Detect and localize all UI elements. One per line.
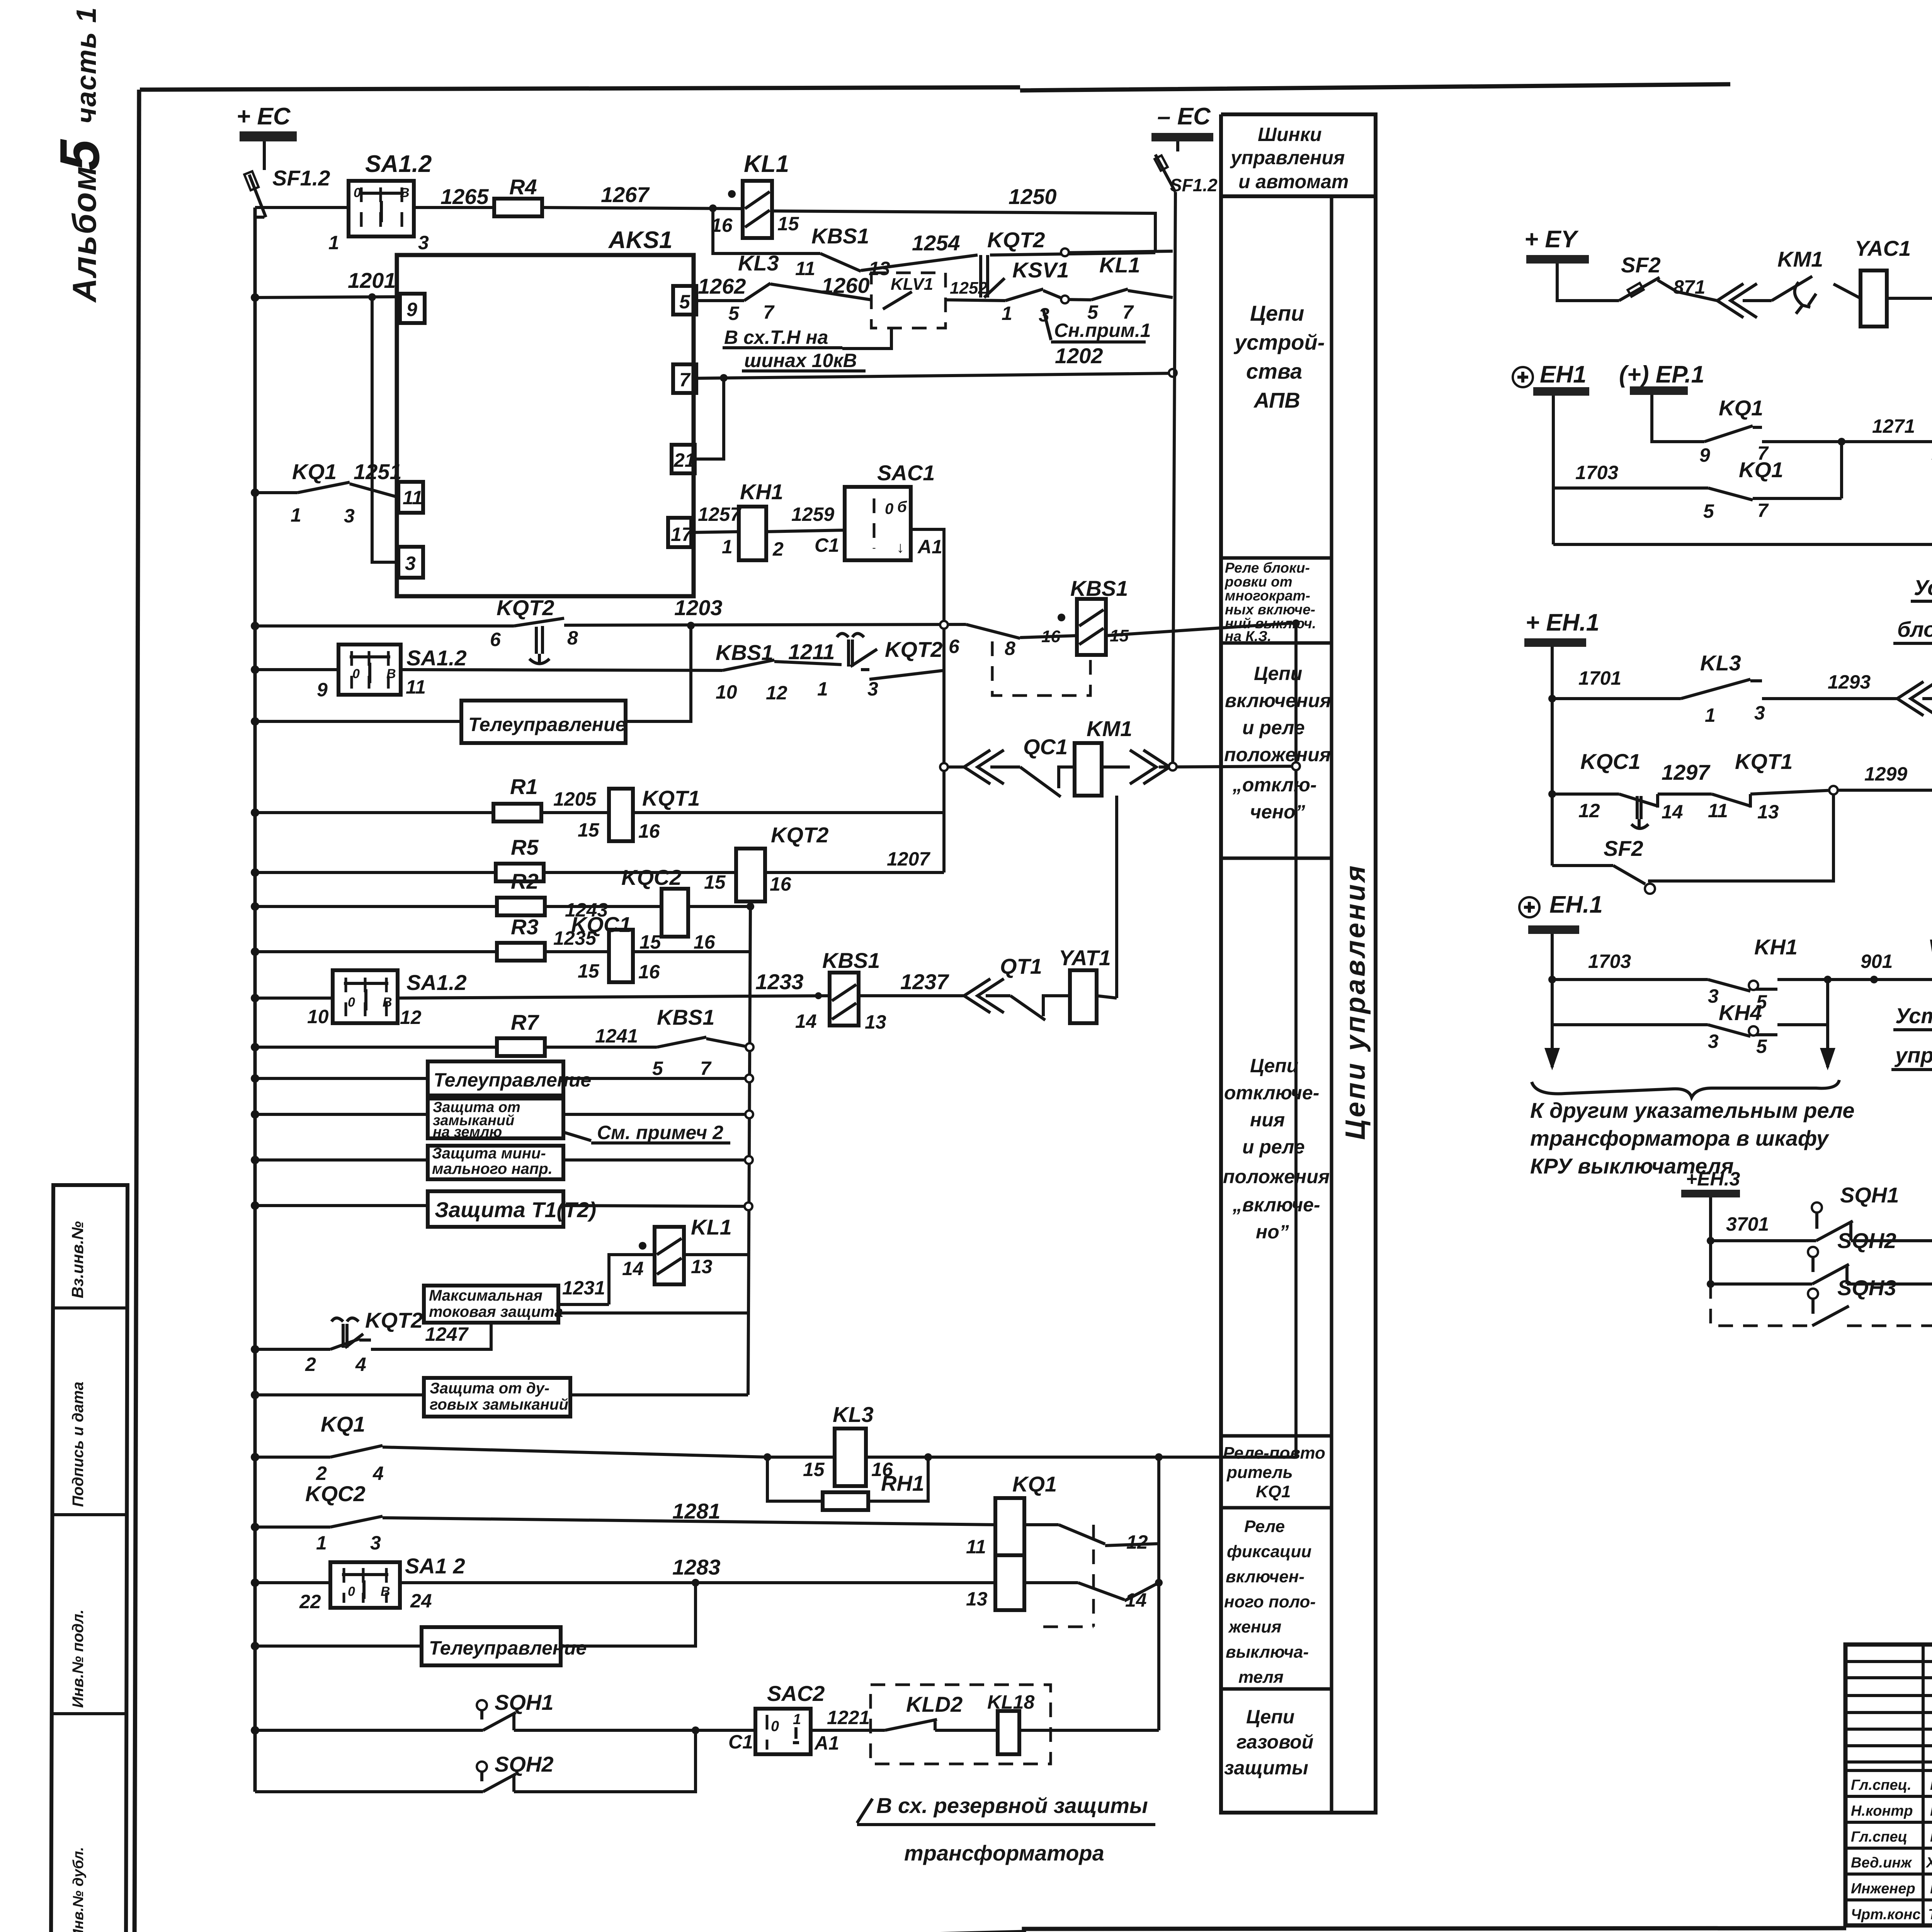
contact KQT2 6-8 (second) (949, 624, 1090, 696)
contact KQT2 2-4 (anchored) (305, 1308, 423, 1375)
svg-text:Цепи: Цепи (1250, 1055, 1298, 1077)
svg-text:24: 24 (410, 1590, 432, 1612)
svg-text:13: 13 (1757, 801, 1779, 823)
svg-text:15: 15 (803, 1459, 825, 1480)
contact KQT1 2-4 (1932, 396, 1932, 464)
bus -EC bar (1151, 103, 1213, 141)
legend box: Реле фиксации включенного положения выключателя (1221, 1517, 1332, 1689)
svg-text:14: 14 (1662, 801, 1683, 823)
svg-text:16: 16 (1041, 627, 1060, 646)
svg-text:3701: 3701 (1726, 1213, 1769, 1235)
wire row KQ1 1251 (y 1275) (255, 484, 398, 497)
wire row R1 KQT1 (y 2103) (255, 811, 944, 814)
svg-text:Цепи: Цепи (1250, 301, 1304, 325)
svg-text:12: 12 (1578, 800, 1600, 821)
svg-text:SA1.2: SA1.2 (406, 970, 467, 995)
bus +EC bar (236, 103, 297, 141)
svg-text:10: 10 (307, 1006, 329, 1027)
svg-text:KQ1: KQ1 (1719, 396, 1763, 420)
svg-text:SF2: SF2 (1604, 836, 1643, 861)
wire row SA1.2 22-24 1283 (y 4096) (255, 1583, 1159, 1601)
svg-text:Горелик: Горелик (1930, 1803, 1932, 1819)
svg-text:16: 16 (694, 931, 716, 953)
svg-text:KSV1: KSV1 (1012, 258, 1069, 282)
svg-text:KQC1: KQC1 (1580, 749, 1641, 774)
contact KQT2 1-3 (anchored) (788, 634, 942, 700)
switch SAC1 (815, 461, 942, 560)
resistor R5 (496, 835, 544, 881)
wire row KQT2 2-4 1247 (y 3492) (255, 1323, 491, 1349)
middle legend column outer box (1221, 114, 1376, 1813)
AKS1 pin 3 (398, 547, 423, 578)
note Установлено на блоке управления (1891, 1003, 1932, 1070)
svg-text:фиксации: фиксации (1227, 1542, 1311, 1561)
svg-text:11: 11 (403, 487, 423, 509)
svg-text:KQC2: KQC2 (305, 1481, 366, 1506)
svg-text:5: 5 (1703, 500, 1714, 522)
svg-text:KM1: KM1 (1087, 716, 1132, 741)
svg-text:1271: 1271 (1872, 415, 1915, 437)
svg-text:Телеуправление: Телеуправление (429, 1637, 587, 1659)
wire row 1203 (y 1618) (255, 623, 1296, 638)
svg-text:3: 3 (1708, 985, 1719, 1007)
wire EH.1 feeder (1551, 647, 1554, 866)
diode VD2 (1928, 935, 1932, 996)
svg-text:Защита мини-: Защита мини- (432, 1145, 546, 1162)
svg-text:+ ЕС: + ЕС (236, 103, 291, 130)
svg-text:7: 7 (763, 301, 775, 323)
switch SA1.2 (contacts 1-3) (328, 151, 432, 253)
svg-text:901: 901 (1861, 951, 1893, 972)
legend box: Реле-повторитель KQ1 (1221, 1444, 1332, 1508)
box Защита от дуговых замыканий (424, 1378, 570, 1417)
svg-text:Инв.№ подл.: Инв.№ подл. (70, 1609, 87, 1708)
svg-text:KL1: KL1 (691, 1215, 732, 1239)
contact KH1 3-5 (1708, 935, 1798, 1013)
brace К другим указательным реле (1532, 1080, 1839, 1097)
svg-text:1252: 1252 (950, 279, 988, 298)
node row KQ1 right (1155, 1453, 1163, 1461)
svg-text:KL1: KL1 (744, 151, 789, 177)
svg-text:1293: 1293 (1828, 671, 1871, 693)
node (2756,654) (1061, 248, 1069, 256)
left stamp column labels (68, 1221, 87, 1932)
svg-text:трансформатора в шкафу: трансформатора в шкафу (1530, 1126, 1830, 1150)
svg-text:14: 14 (795, 1010, 817, 1032)
svg-text:C1: C1 (815, 534, 839, 556)
svg-text:6: 6 (949, 636, 960, 657)
plug contact (chevrons in) (1717, 284, 1757, 318)
svg-text:871: 871 (1673, 276, 1705, 298)
svg-text:KQT2: KQT2 (987, 228, 1045, 252)
svg-text:3: 3 (1708, 1031, 1719, 1052)
svg-text:A1: A1 (814, 1732, 839, 1754)
limit switch SQH1 (477, 1690, 554, 1730)
note См.примеч 2 (563, 1122, 730, 1143)
node B cross (1292, 762, 1300, 770)
svg-text:4: 4 (372, 1463, 384, 1484)
legend box: Реле блокировки от многократных включений выключ на К.З. (1221, 558, 1332, 644)
wire row2 1262 (AKS1 pin5 row, y 776) (695, 284, 1173, 301)
resistor R7 (497, 1010, 545, 1056)
wire row SQH2 (y 4637) (255, 1730, 696, 1792)
svg-text:на К.З.: на К.З. (1225, 628, 1271, 644)
svg-text:1201: 1201 (348, 268, 396, 293)
contact KQ1 5-7 (1703, 457, 1783, 522)
svg-text:KH1: KH1 (740, 480, 783, 504)
svg-text:– ЕС: – ЕС (1157, 103, 1211, 130)
svg-text:Шинки: Шинки (1258, 124, 1322, 145)
contact KBS1 10-12 (716, 640, 787, 704)
svg-text:блоке управления: блоке управления (1897, 617, 1932, 641)
svg-text:KQT1: KQT1 (642, 786, 700, 810)
svg-text:+ EY: + EY (1524, 226, 1579, 253)
svg-text:К другим указательным реле: К другим указательным реле (1530, 1098, 1855, 1122)
svg-text:3: 3 (370, 1532, 381, 1554)
bus EH.1 (circled plus, lower) (1519, 891, 1603, 934)
note К другим указательным реле трансформатора в шкафу КРУ выключателя (1530, 1098, 1855, 1178)
svg-text:положения: положения (1224, 744, 1331, 765)
svg-text:KL3: KL3 (833, 1402, 874, 1427)
svg-text:ного поло-: ного поло- (1224, 1592, 1316, 1611)
contact KSV1 1-3 (1002, 258, 1069, 326)
svg-text:11: 11 (795, 258, 815, 279)
svg-text:Горелик: Горелик (1930, 1829, 1932, 1845)
wire AKS1 pin3 link (372, 297, 398, 562)
AKS1 pin 5 (673, 286, 696, 315)
svg-text:включен-: включен- (1226, 1567, 1304, 1586)
svg-text:Иванова: Иванова (1930, 1881, 1932, 1897)
node 1299 (1829, 786, 1838, 794)
svg-text:8: 8 (567, 627, 578, 649)
svg-text:Телеуправление: Телеуправление (468, 714, 626, 735)
svg-text:защиты: защиты (1224, 1757, 1308, 1779)
svg-text:1297: 1297 (1662, 760, 1711, 784)
wire row защита от замыканий (y 2884) (255, 1113, 749, 1116)
svg-text:15: 15 (639, 931, 662, 953)
svg-text:Цепи управления: Цепи управления (1340, 863, 1371, 1140)
wire vertical B (right collector) (1294, 623, 1298, 1457)
wire row KQ1 9-7 KQT1 HLG1 (y 1143) (1753, 427, 1932, 442)
svg-text:3: 3 (344, 505, 355, 527)
wire EP1 drop (1652, 395, 1704, 442)
svg-text:жения: жения (1228, 1617, 1281, 1636)
svg-text:часть 1: часть 1 (71, 7, 102, 124)
switch SA1.2 (contacts 9-11) (317, 645, 467, 701)
svg-text:ния: ния (1250, 1109, 1285, 1131)
svg-text:Телеуправление: Телеуправление (434, 1069, 591, 1091)
svg-text:1283: 1283 (672, 1555, 721, 1579)
wire row защита Т1Т2 (y 3120) (255, 1206, 748, 1206)
svg-text:Н.контр: Н.контр (1851, 1803, 1913, 1819)
svg-text:15: 15 (777, 213, 799, 235)
wire row R7 KBS1 5-7 (y 2710) (255, 1039, 750, 1047)
signature rows names (1851, 1777, 1932, 1923)
breaker SF1.2 (at -EC) (1155, 141, 1218, 195)
svg-text:1254: 1254 (912, 231, 960, 255)
plug contact QT1 (964, 954, 1045, 1020)
svg-text:3: 3 (405, 553, 416, 574)
wire row SA1.2 10-12 QT1 YAT1 (y 2583) (255, 996, 1117, 1016)
svg-text:Никитин: Никитин (1930, 1777, 1932, 1793)
svg-text:на землю: на землю (433, 1124, 502, 1140)
svg-text:1202: 1202 (1055, 344, 1103, 368)
svg-text:трансформатора: трансформатора (904, 1841, 1104, 1865)
svg-text:Инженер: Инженер (1851, 1881, 1915, 1897)
svg-text:0: 0 (348, 1584, 355, 1599)
contact KQ1 2-4 (316, 1412, 384, 1484)
note Установлены на блоке управления (1893, 575, 1932, 643)
svg-text:+ EH.1: + EH.1 (1526, 609, 1599, 636)
svg-text:Хрипункова: Хрипункова (1925, 1855, 1932, 1871)
AKS1 pin 21 (672, 445, 696, 473)
svg-text:1203: 1203 (674, 595, 723, 620)
note В сх.Т.Н на шинах 10кВ (723, 327, 891, 371)
svg-text:KQT2: KQT2 (771, 823, 828, 847)
wire left bus vertical (253, 207, 257, 1792)
svg-text:0: 0 (885, 500, 893, 517)
resistor RH1 bypass loop (764, 1453, 932, 1510)
contactor coil KM1 (1075, 716, 1132, 796)
legend box: Цепи газовой защиты (1221, 1689, 1332, 1779)
svg-text:ных включе-: ных включе- (1225, 602, 1315, 617)
svg-text:и автомат: и автомат (1238, 171, 1349, 192)
svg-text:токовая защита: токовая защита (429, 1303, 563, 1320)
svg-text:1250: 1250 (1009, 184, 1057, 209)
svg-text:7: 7 (1757, 500, 1769, 521)
bus +EH.3 bar (1681, 1168, 1740, 1197)
svg-text:C1: C1 (728, 1731, 753, 1753)
svg-text:0: 0 (348, 995, 355, 1010)
svg-text:15: 15 (578, 819, 600, 841)
svg-text:12: 12 (766, 682, 787, 704)
node F top (747, 903, 754, 910)
svg-text:1260: 1260 (821, 273, 870, 298)
contact KQT1 11-13 (1708, 749, 1793, 823)
svg-text:Установлены на: Установлены на (1914, 575, 1932, 600)
svg-text:SF1.2: SF1.2 (1170, 175, 1218, 195)
svg-text:9: 9 (1699, 444, 1710, 466)
wire KM1 down link (1115, 796, 1118, 998)
svg-text:13: 13 (691, 1256, 713, 1277)
svg-text:ства: ства (1246, 359, 1302, 383)
wire row 1254 (713, 208, 1173, 270)
wire row R3 KQC1 (y 2463) (255, 950, 750, 953)
wire row 1703 KH1 VD2 905 (y 2535) (1552, 935, 1932, 989)
svg-text:0: 0 (771, 1718, 779, 1735)
svg-text:KLD2: KLD2 (906, 1692, 963, 1716)
svg-text:KBS1: KBS1 (1070, 576, 1128, 600)
breaker SF1.2 (top left) (244, 141, 330, 217)
svg-text:R1: R1 (510, 774, 538, 799)
svg-text:1: 1 (722, 536, 733, 558)
contact KBS1 5-7 (652, 1005, 714, 1079)
svg-text:Защита Т1(Т2): Защита Т1(Т2) (435, 1197, 596, 1222)
node dots on left bus (251, 293, 259, 1735)
svg-text:YAT1: YAT1 (1059, 946, 1111, 970)
svg-text:SQH2: SQH2 (1837, 1228, 1896, 1253)
svg-text:управления: управления (1894, 1043, 1932, 1067)
svg-text:но”: но” (1256, 1221, 1289, 1243)
contact KM1 (with arc) (1762, 247, 1823, 314)
wire row KQC2 6-8 HLR1 (y 1409) (1553, 442, 1932, 544)
left stamp column box (51, 1185, 128, 1932)
svg-text:R5: R5 (511, 835, 539, 859)
svg-text:KBS1: KBS1 (822, 948, 880, 973)
node and label 1233 (755, 969, 822, 999)
label 1254 and contact KQT2 (holds row 654 to row 776) (912, 228, 1045, 298)
svg-text:KQ1: KQ1 (1256, 1482, 1291, 1501)
note В сх. резервной защиты трансформатора (857, 1793, 1155, 1865)
wire row защита от дуговых (y 3610) (255, 1393, 748, 1396)
wire row1 (537) (255, 207, 743, 209)
title block outer box (1845, 1645, 1932, 1925)
contact KL1 5-7 (1087, 253, 1140, 323)
wire row 1701 KL3 Q1.2 R6 (y 1808) (1552, 649, 1932, 699)
svg-text:R4: R4 (509, 175, 537, 199)
svg-text:Цепи: Цепи (1246, 1706, 1294, 1728)
svg-text:1: 1 (1002, 303, 1012, 324)
svg-text:13: 13 (966, 1588, 988, 1610)
wire vertical A (-EC feeder) (1173, 192, 1175, 766)
svg-text:7: 7 (700, 1058, 712, 1079)
svg-text:KQ1: KQ1 (1739, 457, 1783, 482)
svg-text:16: 16 (770, 873, 792, 895)
relay KQ1 (two-coil latching) (966, 1472, 1148, 1627)
legend box: Шинки управления и автомат (1221, 124, 1376, 196)
relay unit AKS1 (box) (397, 227, 694, 596)
switch SA1.2 (contacts 22-24) (299, 1554, 465, 1612)
resistor R2 (497, 869, 545, 915)
breaker aux Q1.2 (chevrons + linkage) (1897, 662, 1932, 726)
wire EH.1 lower feeder (1551, 934, 1554, 1051)
svg-text:RH1: RH1 (881, 1471, 924, 1495)
wire row SA1.2 9-11 (y 1733) (255, 662, 944, 679)
box Телеуправление II (428, 1061, 591, 1095)
svg-text:2: 2 (316, 1463, 327, 1484)
svg-text:KL1: KL1 (1099, 253, 1140, 277)
node (2756,775) (1061, 296, 1069, 303)
wire vertical C (1157, 1457, 1160, 1730)
wire row EY (y 778) (1557, 264, 1932, 305)
limit switch SQH2 (477, 1752, 554, 1792)
resistor R3 (497, 915, 545, 961)
svg-text:В сх.Т.Н на: В сх.Т.Н на (724, 327, 828, 348)
svg-text:1267: 1267 (601, 182, 650, 207)
limit switch SQH1 (right circuit) (1812, 1183, 1899, 1241)
svg-text:14: 14 (622, 1258, 644, 1279)
wire row QC1 KM1 (y 1985) (944, 766, 1296, 788)
svg-text:В: В (386, 667, 396, 681)
drawing frame top border (140, 84, 1730, 90)
wire row KH1 (y 1376) (691, 529, 944, 872)
wire row R2 KQC2 (y 2346) (255, 905, 750, 908)
wire row Телеуправление I (y 1867) (255, 626, 691, 721)
box Телеуправление I (461, 701, 626, 743)
svg-text:8: 8 (1005, 638, 1015, 659)
node A end (1169, 763, 1177, 770)
resistor R1 (493, 774, 541, 821)
svg-text:SF1.2: SF1.2 (272, 166, 330, 190)
svg-text:11: 11 (1708, 800, 1728, 821)
svg-text:5: 5 (48, 139, 111, 171)
svg-text:Гл.спец.: Гл.спец. (1851, 1777, 1912, 1793)
svg-text:7: 7 (679, 369, 691, 391)
svg-text:1221: 1221 (827, 1707, 870, 1728)
svg-text:Чрт.конс: Чрт.конс (1851, 1906, 1921, 1923)
AKS1 pin 7 (673, 364, 696, 393)
relay KLV1 (dashed box with contact) (871, 273, 946, 328)
wire row R5 KQT2 (y 2258) (255, 871, 944, 874)
note Сн.прим.1 (1043, 309, 1151, 342)
svg-text:В: В (381, 1584, 390, 1599)
wire row KQC2 1-3 1281 (y 3952) (255, 1518, 1159, 1546)
svg-text:SQH1: SQH1 (1840, 1183, 1899, 1207)
contact KH4 3-5 (1708, 1000, 1767, 1057)
svg-text:Реле блоки-: Реле блоки- (1225, 560, 1310, 576)
wire row 1202 (y 974) (695, 344, 1177, 382)
contact KQ1 9-7 (1699, 396, 1769, 466)
svg-text:A1: A1 (917, 536, 942, 558)
label 901 + node (1824, 951, 1893, 983)
svg-text:5: 5 (652, 1058, 663, 1079)
svg-text:управления: управления (1230, 147, 1345, 168)
drawing frame left border (134, 90, 139, 1932)
svg-text:шинах 10кВ: шинах 10кВ (744, 350, 857, 371)
svg-text:положения: положения (1223, 1166, 1330, 1187)
svg-text:KL3: KL3 (1700, 651, 1741, 675)
svg-text:15: 15 (1110, 626, 1129, 645)
svg-text:Тимофеева: Тимофеева (1928, 1906, 1932, 1923)
svg-text:KQ1: KQ1 (321, 1412, 365, 1436)
svg-text:Гл.спец: Гл.спец (1851, 1829, 1907, 1845)
svg-text:5: 5 (728, 303, 740, 324)
svg-text:1703: 1703 (1575, 462, 1618, 483)
svg-text:KQT2: KQT2 (885, 637, 942, 662)
svg-text:KL3: KL3 (738, 251, 779, 275)
node row1203 right (1292, 619, 1300, 627)
svg-text:0: 0 (352, 667, 360, 681)
wire row Телеуправление II (y 2791) (255, 1077, 749, 1080)
svg-text:1241: 1241 (595, 1025, 638, 1047)
contact KL3 5-7 (728, 251, 779, 324)
legend box: Цепи отключения и реле положения включено (1221, 1055, 1332, 1436)
svg-text:13: 13 (865, 1011, 886, 1033)
svg-text:5: 5 (679, 291, 690, 313)
wire row 3701 SQH1 (y 3211) (1711, 1223, 1932, 1284)
box Защита минимального напр (428, 1145, 563, 1179)
svg-text:1237: 1237 (900, 969, 949, 994)
wire row KH4 3-5 (y 2652) (1552, 980, 1828, 1051)
svg-text:16: 16 (638, 961, 660, 983)
svg-text:9: 9 (317, 679, 328, 701)
relay KBS1 (hatched) on row 1203 (1041, 576, 1129, 655)
svg-text:устрой-: устрой- (1233, 330, 1325, 354)
svg-text:выключа-: выключа- (1226, 1643, 1309, 1662)
box Защита от замыканий на землю (428, 1099, 563, 1140)
contact KQC2 1-3 (305, 1481, 383, 1554)
svg-text:SA1.2: SA1.2 (406, 646, 467, 670)
svg-text:1259: 1259 (791, 503, 834, 525)
wire row KQ1 2-4 KL3 (y 3771) (255, 1447, 1296, 1457)
album title: Альбом 5 часть 1 (48, 7, 111, 303)
svg-text:KBS1: KBS1 (811, 224, 869, 248)
svg-text:10: 10 (716, 681, 737, 703)
svg-text:11: 11 (406, 676, 426, 698)
svg-text:15: 15 (704, 871, 726, 893)
relay coil KH1 (722, 480, 784, 560)
box Максимальная токовая защита (424, 1277, 748, 1323)
